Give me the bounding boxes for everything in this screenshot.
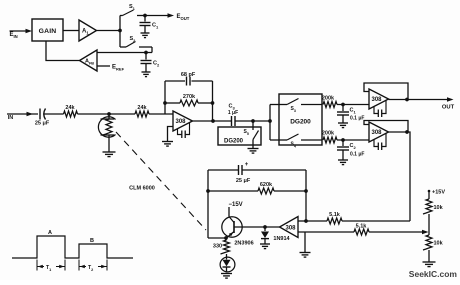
node junction right rail 620k: [304, 189, 308, 193]
svg-text:+15V: +15V: [432, 190, 445, 196]
ground below C2 hold: [338, 160, 348, 165]
wire integrator right rail: [305, 170, 307, 221]
ground below LED: [221, 274, 232, 279]
svg-text:S1: S1: [129, 4, 136, 11]
ground below 1N914: [260, 244, 270, 249]
node junction photocell tap: [107, 112, 111, 116]
svg-text:C1: C1: [152, 23, 159, 30]
wire U2 feedback loop: [364, 83, 408, 100]
svg-text:24k: 24k: [65, 105, 75, 111]
svg-text:25 μF: 25 μF: [236, 178, 251, 184]
wire divider mid: [428, 214, 430, 235]
resistor R 5.1k lower: [354, 224, 423, 236]
switch S4: [279, 134, 322, 148]
svg-text:2N3906: 2N3906: [234, 241, 253, 247]
svg-text:1 μF: 1 μF: [228, 110, 238, 116]
node junction C1 hold: [341, 103, 345, 107]
node junction collector: [224, 236, 228, 240]
switch S3: [279, 99, 322, 113]
resistor R 10k pot: [423, 235, 444, 250]
resistor R 24k second: [135, 105, 149, 117]
svg-text:−15V: −15V: [229, 202, 243, 208]
watermark SeekIC.com: [409, 269, 458, 279]
node junction S5 tap: [251, 119, 255, 123]
svg-text:308: 308: [285, 226, 296, 232]
svg-text:200k: 200k: [322, 96, 335, 102]
wire 200k to buffer 2: [337, 139, 369, 141]
wire C3 to switches: [235, 120, 270, 122]
ground below C1: [141, 33, 150, 38]
node junction 1N914 tap: [263, 225, 267, 229]
svg-text:330: 330: [213, 244, 222, 250]
svg-text:DG200: DG200: [224, 139, 244, 145]
resistor R 200k top: [322, 96, 337, 108]
svg-text:0.1 μF: 0.1 μF: [350, 116, 364, 122]
transistor Q1 2N3906: [222, 217, 254, 247]
node junction U1 out: [211, 119, 215, 123]
svg-text:IN: IN: [8, 115, 14, 121]
block GAIN: [32, 19, 63, 41]
svg-text:620k: 620k: [260, 182, 273, 188]
node junction U2 out: [405, 98, 409, 102]
svg-text:270k: 270k: [183, 94, 196, 100]
resistor R 620k: [208, 182, 306, 194]
ground stub comparator: [300, 232, 311, 257]
svg-text:T2: T2: [88, 265, 93, 272]
op-amp A1: [79, 20, 97, 41]
svg-text:5.1k: 5.1k: [356, 224, 368, 230]
svg-text:200k: 200k: [322, 131, 335, 137]
wire U3 output: [389, 132, 411, 221]
ground below C2: [142, 72, 151, 77]
wire 200k to buffer: [337, 104, 369, 106]
svg-text:EIN: EIN: [10, 32, 18, 39]
resistor R 24k first: [64, 105, 78, 117]
resistor R 200k bottom: [322, 131, 337, 144]
svg-text:C1: C1: [350, 108, 357, 115]
wire U2 output to OUT: [389, 99, 448, 101]
capacitor C3 1uF: [228, 104, 238, 127]
wire divider bottom: [428, 250, 430, 262]
waveform T ticks: [37, 260, 107, 271]
wire comparator minus input: [298, 220, 306, 222]
IC big DG200 box: [279, 94, 322, 145]
wire base to comparator: [234, 226, 280, 228]
ground below photocell: [103, 152, 116, 157]
capacitor C2: [141, 53, 160, 72]
svg-text:+: +: [245, 162, 249, 168]
op-amp U4 308 comparator: [280, 217, 299, 238]
svg-text:1N914: 1N914: [273, 236, 290, 242]
capacitor 25uF input: [35, 109, 50, 127]
wire feedback left riser: [164, 81, 166, 114]
svg-text:T1: T1: [46, 265, 51, 272]
svg-text:A: A: [48, 230, 52, 236]
capacitor 68 pF feedback: [165, 72, 213, 121]
IC small DG200 box: [218, 127, 261, 145]
capacitor comp U1: [178, 122, 190, 138]
wire GAIN feedback path: [46, 41, 80, 61]
svg-text:S5: S5: [244, 129, 249, 136]
wire GAIN to A1: [63, 30, 79, 32]
node junction 270k right: [211, 101, 215, 105]
capacitor 25uF integrator: [208, 162, 306, 184]
dimension T1: [38, 265, 65, 272]
node junction C2 hold: [341, 138, 345, 142]
wire junction to box branches: [270, 105, 279, 141]
wire dashed optical link CLM 6000: [116, 132, 206, 230]
node junction 270k left: [163, 101, 167, 105]
photoresistor CLM6000 cell: [98, 114, 115, 152]
resistor R 10k upper: [423, 199, 444, 214]
svg-text:CLM 6000: CLM 6000: [129, 186, 155, 192]
node junction A1 out: [118, 29, 122, 33]
diode D1 1N914: [261, 227, 291, 244]
wire E_REF stub: [97, 65, 125, 72]
svg-text:10k: 10k: [434, 205, 444, 211]
svg-text:0.1 μF: 0.1 μF: [350, 152, 364, 158]
switch S1: [120, 4, 145, 31]
svg-text:EOUT: EOUT: [177, 14, 190, 21]
node E_IN input label: [10, 29, 33, 39]
label pulse A: [48, 230, 52, 236]
waveform pulse trace: [12, 236, 133, 258]
node junction DG200 tap: [268, 119, 272, 123]
svg-text:S2: S2: [130, 36, 137, 43]
wire to E_OUT with arrow: [145, 13, 190, 21]
capacitor comp U3: [374, 134, 386, 151]
ground below op-amp U1: [162, 142, 173, 147]
resistor R 330: [213, 238, 230, 257]
svg-text:25 μF: 25 μF: [35, 121, 50, 127]
node junction U3 out: [405, 130, 409, 134]
op-amp U2 308 buffer top: [369, 89, 389, 109]
wire U3 feedback loop: [364, 121, 408, 133]
capacitor comp U2: [374, 101, 386, 118]
dimension T2: [80, 265, 107, 272]
wire U1 output: [191, 120, 232, 122]
wire S2 to A_FB input: [97, 52, 152, 54]
capacitor C2 hold 0.1uF: [337, 140, 364, 160]
svg-text:24k: 24k: [137, 105, 147, 111]
wire -15V to emitter: [228, 207, 230, 217]
svg-text:S3: S3: [291, 106, 296, 113]
resistor R 270k feedback: [165, 94, 213, 106]
svg-text:AFB: AFB: [85, 59, 94, 66]
svg-text:SeekIC.com: SeekIC.com: [409, 269, 458, 279]
wire 24k to op-amp: [149, 113, 173, 115]
wire integrator left rail: [207, 170, 209, 238]
op-amp U3 308 buffer bottom: [369, 122, 389, 142]
svg-text:OUT: OUT: [442, 105, 455, 111]
svg-text:308: 308: [371, 130, 382, 136]
svg-text:C2: C2: [350, 143, 357, 150]
node junction C2 tap: [144, 51, 148, 55]
svg-text:GAIN: GAIN: [39, 28, 57, 35]
svg-text:308: 308: [175, 119, 186, 125]
capacitor C1: [140, 16, 159, 33]
svg-text:EREF: EREF: [112, 65, 125, 72]
op-amp U1 308 integrator: [173, 111, 193, 131]
svg-text:S4: S4: [291, 142, 296, 149]
switch S2: [120, 31, 152, 53]
svg-text:A1: A1: [82, 29, 89, 36]
node wiper arrow: [422, 230, 429, 235]
op-amp A_FB feedback amplifier: [80, 50, 98, 71]
ground below divider: [423, 262, 436, 267]
node +15V supply: [428, 190, 446, 200]
LED CLM6000 lamp: [220, 257, 235, 273]
node junction S1/C1: [143, 14, 147, 18]
svg-text:10k: 10k: [434, 241, 444, 247]
node IN input label: [7, 112, 38, 121]
ground below C1 hold: [338, 123, 348, 128]
node OUT arrow: [442, 97, 455, 110]
node junction left rail: [206, 189, 210, 193]
label -15V supply: [229, 202, 243, 208]
capacitor C1 hold 0.1uF: [337, 105, 364, 123]
ground below S5: [248, 149, 259, 154]
wire op-amp plus to ground: [168, 127, 174, 142]
wire A1 output to switch junction: [97, 30, 121, 32]
svg-text:DG200: DG200: [290, 119, 311, 126]
switch S5 reset: [244, 121, 259, 148]
wire collector row: [208, 237, 226, 239]
label pulse B: [90, 238, 94, 244]
resistor R 5.1k upper: [306, 212, 410, 224]
wire comparator plus row: [298, 231, 354, 233]
wire 24k to 24k: [78, 113, 136, 115]
svg-text:B: B: [90, 238, 94, 244]
svg-text:308: 308: [371, 97, 382, 103]
wire cap to 24k: [45, 113, 64, 115]
svg-text:68 pF: 68 pF: [181, 72, 196, 78]
svg-text:C2: C2: [153, 61, 160, 68]
node junction comparator minus: [304, 219, 308, 223]
svg-text:5.1k: 5.1k: [329, 212, 341, 218]
